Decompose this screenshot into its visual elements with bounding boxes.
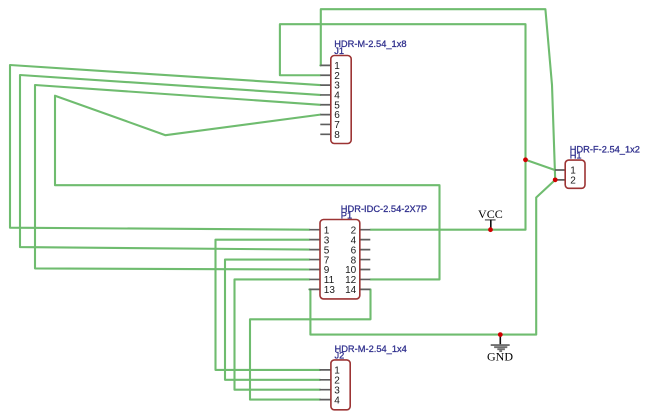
- svg-text:J1: J1: [334, 46, 344, 56]
- pin stubs J2: [320, 370, 332, 400]
- wire net GND: J1.1 to H1.2 to P1.13: [309, 9, 555, 334]
- wire net VCC: J1.2 loop to H1 area down to P1.2: [280, 24, 526, 230]
- GND flag stem: [499, 335, 501, 345]
- junction dot GND: [498, 332, 503, 337]
- junction dot VCC: [488, 227, 493, 232]
- svg-text:HDR-IDC-2.54-2X7P: HDR-IDC-2.54-2X7P: [341, 204, 427, 214]
- wire net VCC branch to H1.1: [526, 160, 555, 170]
- P1 body outline: [320, 220, 360, 299]
- J2 body outline: [331, 360, 350, 410]
- svg-text:H1: H1: [570, 151, 582, 161]
- VCC net flag: [478, 207, 503, 230]
- svg-text:2: 2: [570, 176, 576, 187]
- wire net E: P1.3 to J2.1: [216, 240, 321, 370]
- svg-text:4: 4: [334, 395, 340, 406]
- connector J1 HDR-M-2.54_1x8: [320, 39, 406, 143]
- svg-text:8: 8: [334, 130, 340, 141]
- pin stubs P1 left: [309, 230, 320, 290]
- wire net C: J1.5 to P1.9: [35, 85, 320, 270]
- H1 body outline: [565, 160, 585, 188]
- svg-text:VCC: VCC: [478, 207, 503, 221]
- ground symbol bars: [491, 344, 510, 346]
- junction dot H1 pin1 net: [523, 157, 528, 162]
- GND net flag: [487, 335, 513, 364]
- pin stubs J1: [320, 65, 331, 134]
- svg-text:HDR-M-2.54_1x4: HDR-M-2.54_1x4: [335, 344, 407, 354]
- pin stubs P1 right: [360, 230, 371, 290]
- svg-text:J2: J2: [335, 350, 345, 360]
- VCC flag crossbar: [485, 219, 496, 221]
- wire net B: J1.4 to P1.5: [20, 75, 320, 250]
- wire net G: P1.11 to J2.3: [235, 279, 321, 389]
- svg-text:GND: GND: [487, 350, 513, 364]
- svg-text:14: 14: [345, 285, 357, 296]
- wire net A: J1.3 to P1.1: [10, 65, 320, 230]
- wire net H: P1.14 to J2.4: [250, 289, 371, 399]
- pin stubs H1: [555, 170, 566, 180]
- connector P1 HDR-IDC-2.54-2X7P: [309, 204, 427, 299]
- svg-text:HDR-M-2.54_1x8: HDR-M-2.54_1x8: [334, 39, 406, 49]
- wire net F: P1.7 to J2.2: [225, 260, 320, 380]
- VCC flag stem: [490, 220, 492, 230]
- junction dot H1 pin2 net: [553, 177, 558, 182]
- connector J2 HDR-M-2.54_1x4: [320, 344, 407, 410]
- J1 body outline: [331, 56, 351, 144]
- wire net D: J1.6 V-bend to P1.12: [55, 96, 440, 280]
- svg-text:13: 13: [324, 285, 336, 296]
- connector H1 HDR-F-2.54_1x2: [555, 144, 640, 188]
